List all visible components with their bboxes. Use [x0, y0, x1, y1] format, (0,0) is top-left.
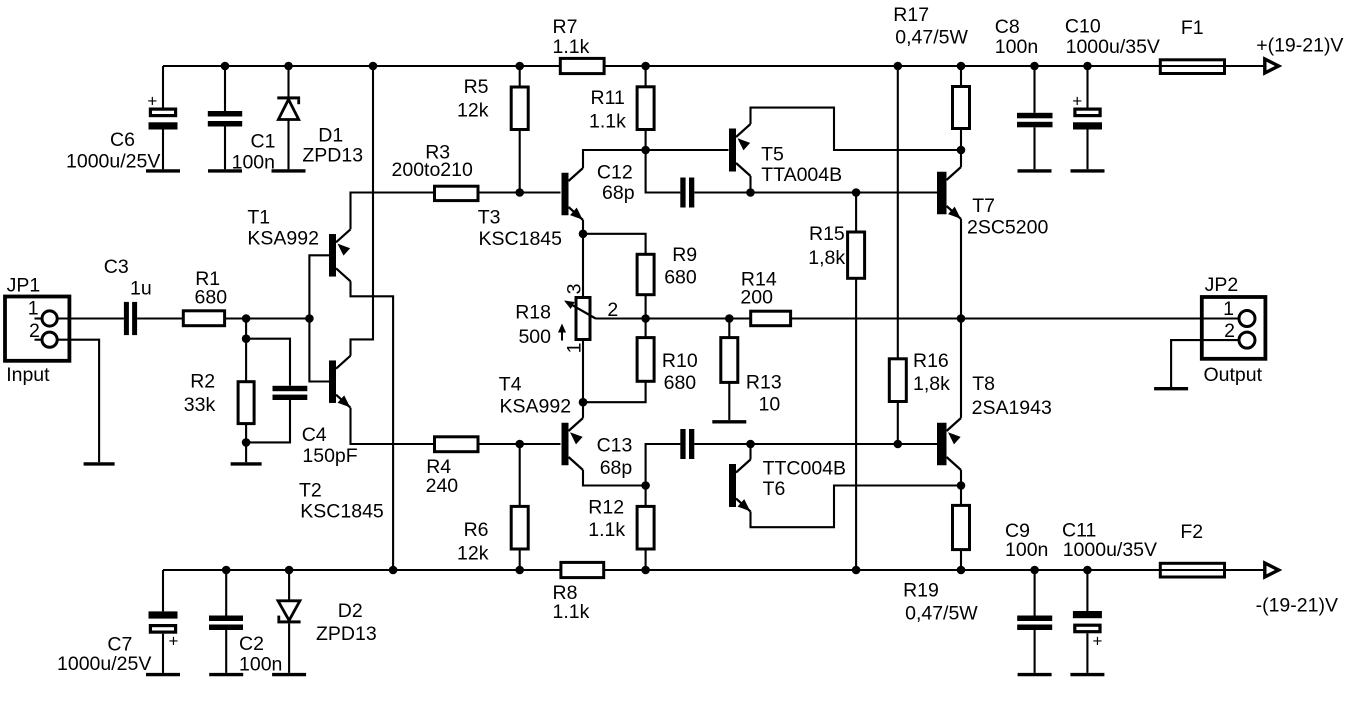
svg-text:1000u/35V: 1000u/35V — [1066, 36, 1160, 58]
svg-text:KSC1845: KSC1845 — [479, 228, 563, 250]
svg-text:2: 2 — [607, 299, 618, 321]
svg-text:2SC5200: 2SC5200 — [967, 217, 1048, 239]
svg-text:JP1: JP1 — [7, 275, 41, 297]
svg-text:ZPD13: ZPD13 — [316, 623, 377, 645]
svg-text:T1: T1 — [247, 207, 270, 229]
svg-text:C8: C8 — [995, 16, 1020, 38]
svg-text:2: 2 — [29, 320, 40, 342]
svg-text:1: 1 — [28, 298, 39, 320]
svg-text:C4: C4 — [302, 424, 327, 446]
svg-text:C13: C13 — [597, 435, 633, 457]
svg-text:680: 680 — [664, 372, 697, 394]
svg-text:2: 2 — [1224, 320, 1235, 342]
svg-text:200: 200 — [740, 287, 773, 309]
svg-text:+: + — [147, 91, 157, 110]
svg-text:1: 1 — [1223, 298, 1234, 320]
svg-text:33k: 33k — [184, 394, 216, 416]
svg-text:+(19-21)V: +(19-21)V — [1256, 35, 1343, 57]
svg-text:JP2: JP2 — [1205, 274, 1239, 296]
svg-text:TTC004B: TTC004B — [763, 458, 846, 480]
svg-text:1.1k: 1.1k — [588, 519, 625, 541]
svg-text:C2: C2 — [239, 633, 264, 655]
svg-text:T4: T4 — [499, 374, 522, 396]
svg-text:T2: T2 — [299, 480, 322, 502]
svg-text:100n: 100n — [1005, 539, 1048, 561]
svg-text:1,8k: 1,8k — [913, 373, 950, 395]
svg-text:KSA992: KSA992 — [247, 228, 319, 250]
svg-text:C1: C1 — [251, 131, 276, 153]
svg-text:3: 3 — [563, 284, 585, 295]
svg-text:-(19-21)V: -(19-21)V — [1256, 595, 1338, 617]
svg-text:C3: C3 — [104, 256, 129, 278]
svg-text:R6: R6 — [464, 519, 489, 541]
svg-text:Output: Output — [1204, 364, 1263, 386]
svg-text:1000u/25V: 1000u/25V — [57, 653, 151, 675]
svg-text:+: + — [169, 632, 179, 651]
svg-text:+: + — [1072, 92, 1082, 111]
svg-text:1.1k: 1.1k — [553, 36, 590, 58]
svg-text:F1: F1 — [1181, 17, 1204, 39]
svg-text:100n: 100n — [995, 36, 1038, 58]
svg-text:R9: R9 — [672, 244, 697, 266]
svg-text:1.1k: 1.1k — [553, 601, 590, 623]
svg-text:68p: 68p — [600, 457, 633, 479]
svg-text:1u: 1u — [130, 278, 152, 300]
svg-text:12k: 12k — [457, 543, 489, 565]
svg-text:1: 1 — [563, 343, 585, 354]
svg-text:R15: R15 — [809, 223, 845, 245]
svg-text:C6: C6 — [110, 129, 135, 151]
svg-text:R11: R11 — [591, 87, 625, 109]
svg-text:TTA004B: TTA004B — [761, 164, 842, 186]
svg-text:1,8k: 1,8k — [808, 247, 845, 269]
svg-text:D1: D1 — [318, 125, 343, 147]
svg-text:R18: R18 — [515, 302, 551, 324]
svg-text:68p: 68p — [602, 182, 635, 204]
svg-text:KSA992: KSA992 — [500, 396, 572, 418]
svg-text:R16: R16 — [913, 350, 949, 372]
svg-text:T6: T6 — [763, 478, 786, 500]
svg-text:D2: D2 — [338, 600, 363, 622]
svg-text:2SA1943: 2SA1943 — [972, 397, 1052, 419]
svg-text:1.1k: 1.1k — [589, 111, 626, 133]
svg-text:R13: R13 — [746, 372, 782, 394]
svg-text:10: 10 — [759, 394, 781, 416]
svg-text:0,47/5W: 0,47/5W — [895, 27, 968, 49]
svg-text:200to210: 200to210 — [392, 159, 473, 181]
svg-text:1000u/25V: 1000u/25V — [66, 151, 160, 173]
svg-text:Input: Input — [6, 364, 50, 386]
svg-text:T5: T5 — [761, 144, 784, 166]
svg-text:T3: T3 — [478, 207, 501, 229]
svg-text:R17: R17 — [893, 4, 929, 26]
svg-text:1000u/35V: 1000u/35V — [1063, 539, 1157, 561]
svg-text:KSC1845: KSC1845 — [300, 501, 384, 523]
svg-text:R19: R19 — [903, 580, 939, 602]
svg-text:R12: R12 — [588, 497, 624, 519]
svg-text:240: 240 — [426, 475, 459, 497]
svg-text:100n: 100n — [232, 152, 275, 174]
svg-text:T8: T8 — [972, 373, 995, 395]
svg-text:+: + — [1093, 632, 1103, 651]
svg-text:R2: R2 — [190, 371, 215, 393]
svg-text:680: 680 — [664, 267, 697, 289]
svg-text:ZPD13: ZPD13 — [302, 145, 363, 167]
svg-text:C10: C10 — [1065, 16, 1101, 38]
svg-text:12k: 12k — [457, 100, 489, 122]
svg-text:100n: 100n — [239, 654, 282, 676]
svg-text:R5: R5 — [464, 76, 489, 98]
svg-text:F2: F2 — [1180, 521, 1203, 543]
svg-text:C12: C12 — [597, 162, 633, 184]
svg-text:150pF: 150pF — [302, 445, 357, 467]
svg-text:680: 680 — [195, 287, 228, 309]
svg-text:R10: R10 — [662, 350, 698, 372]
svg-text:0,47/5W: 0,47/5W — [905, 603, 978, 625]
svg-text:R7: R7 — [553, 16, 578, 38]
svg-text:500: 500 — [518, 326, 551, 348]
svg-text:T7: T7 — [972, 195, 995, 217]
